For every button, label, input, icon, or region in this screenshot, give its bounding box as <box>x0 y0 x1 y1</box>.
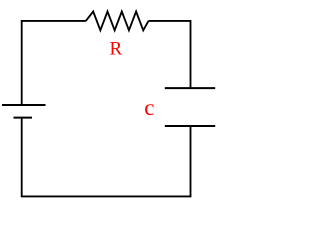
wire right upper vertical <box>190 20 192 88</box>
wire top-left horizontal <box>22 20 86 22</box>
battery long plate (positive) <box>2 104 46 106</box>
svg-text:R: R <box>110 39 123 60</box>
wire right lower vertical <box>190 126 192 196</box>
wire left upper vertical <box>21 20 23 105</box>
wire top-right horizontal <box>149 20 191 22</box>
capacitor C top plate <box>165 87 215 89</box>
resistor R <box>86 12 149 31</box>
wire left lower vertical <box>21 118 23 198</box>
wire bottom horizontal <box>22 195 192 197</box>
battery short plate (negative) <box>14 117 33 119</box>
svg-text:c: c <box>144 95 154 120</box>
capacitor C bottom plate <box>165 125 215 127</box>
